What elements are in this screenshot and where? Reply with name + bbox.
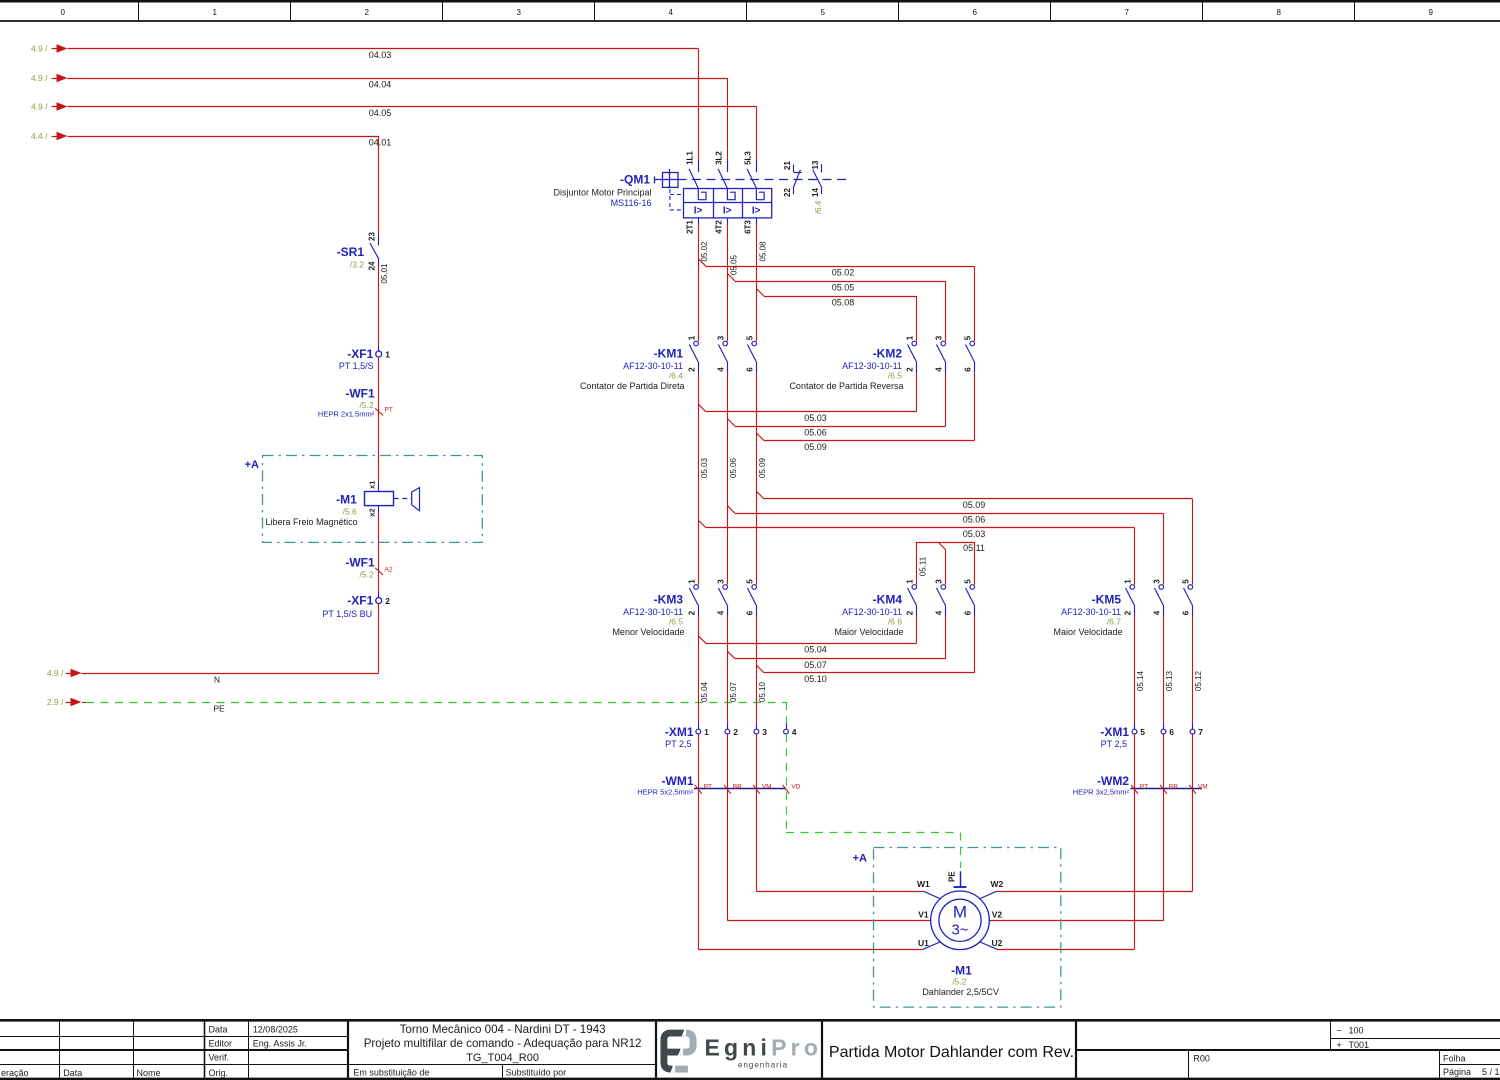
svg-text:05.10: 05.10: [804, 674, 827, 684]
svg-text:Editor: Editor: [209, 1039, 233, 1049]
svg-text:+A: +A: [245, 459, 259, 471]
svg-text:-XM1: -XM1: [665, 725, 694, 739]
svg-text:T001: T001: [1349, 1040, 1370, 1050]
svg-text:Nome: Nome: [137, 1068, 161, 1078]
svg-text:23: 23: [367, 232, 376, 241]
svg-text:12/08/2025: 12/08/2025: [253, 1025, 298, 1035]
svg-text:HEPR 5x2,5mm²: HEPR 5x2,5mm²: [637, 788, 694, 797]
svg-text:4.4 /: 4.4 /: [31, 131, 48, 141]
svg-text:AF12-30-10-11: AF12-30-10-11: [1061, 607, 1121, 617]
svg-text:05.07: 05.07: [804, 660, 827, 670]
svg-text:6: 6: [1169, 727, 1174, 737]
svg-text:Data: Data: [209, 1025, 228, 1035]
svg-text:4: 4: [668, 8, 673, 17]
svg-text:04.01: 04.01: [369, 138, 392, 148]
svg-text:W1: W1: [917, 879, 930, 889]
svg-text:-SR1: -SR1: [337, 245, 365, 259]
svg-text:N: N: [214, 675, 220, 685]
svg-text:24: 24: [367, 261, 376, 270]
svg-text:−: −: [1337, 1025, 1342, 1035]
svg-text:6T3: 6T3: [743, 220, 752, 234]
svg-text:2: 2: [385, 596, 390, 606]
svg-text:I>: I>: [723, 206, 732, 217]
svg-text:1: 1: [906, 579, 915, 584]
svg-text:05.03: 05.03: [804, 413, 827, 423]
svg-text:-WM1: -WM1: [662, 774, 694, 788]
svg-text:Folha: Folha: [1443, 1053, 1466, 1063]
svg-text:/5.2: /5.2: [360, 400, 374, 410]
svg-text:2: 2: [687, 610, 696, 615]
svg-text:05.11: 05.11: [919, 556, 928, 576]
svg-text:05.09: 05.09: [804, 442, 827, 452]
svg-text:05.03: 05.03: [963, 529, 986, 539]
svg-text:AF12-30-10-11: AF12-30-10-11: [842, 607, 902, 617]
svg-text:-XF1: -XF1: [347, 594, 373, 608]
svg-text:PT: PT: [385, 407, 393, 414]
svg-text:x1: x1: [368, 481, 377, 489]
svg-text:2: 2: [1124, 610, 1133, 615]
svg-text:5: 5: [964, 335, 973, 340]
svg-text:+A: +A: [853, 853, 867, 865]
svg-text:Maior Velocidade: Maior Velocidade: [834, 627, 903, 637]
svg-text:3~: 3~: [951, 922, 968, 939]
svg-text:I>: I>: [752, 206, 761, 217]
svg-text:Página: Página: [1443, 1067, 1471, 1077]
svg-text:2: 2: [733, 727, 738, 737]
svg-text:4.9 /: 4.9 /: [31, 44, 48, 54]
svg-text:05.02: 05.02: [700, 241, 709, 262]
svg-text:14: 14: [811, 188, 820, 197]
svg-text:13: 13: [811, 160, 820, 169]
svg-text:5 / 15: 5 / 15: [1482, 1067, 1500, 1077]
svg-text:-WF1: -WF1: [345, 387, 375, 401]
svg-text:/5.2: /5.2: [952, 977, 966, 987]
svg-text:1: 1: [385, 350, 390, 360]
svg-text:-WF1: -WF1: [345, 556, 375, 570]
svg-text:Substituído por: Substituído por: [506, 1067, 567, 1077]
svg-text:A2: A2: [385, 567, 393, 574]
svg-text:05.08: 05.08: [758, 241, 767, 262]
svg-text:05.10: 05.10: [758, 681, 767, 702]
svg-text:05.06: 05.06: [963, 515, 986, 525]
svg-text:eração: eração: [1, 1068, 29, 1078]
svg-text:05.04: 05.04: [700, 681, 709, 702]
svg-text:05.01: 05.01: [380, 263, 389, 284]
svg-text:PT 2,5: PT 2,5: [1101, 739, 1127, 749]
svg-text:Torno Mecânico 004 - Nardini D: Torno Mecânico 004 - Nardini DT - 1943: [400, 1023, 606, 1036]
svg-text:PE: PE: [947, 871, 956, 882]
svg-text:3L2: 3L2: [714, 151, 723, 165]
svg-text:1: 1: [687, 335, 696, 340]
svg-text:V2: V2: [992, 910, 1003, 920]
svg-text:05.08: 05.08: [832, 297, 855, 307]
svg-text:Orig.: Orig.: [209, 1068, 229, 1078]
svg-text:-WM2: -WM2: [1097, 774, 1129, 788]
svg-text:5: 5: [745, 579, 754, 584]
svg-text:Verif.: Verif.: [209, 1053, 230, 1063]
svg-text:4.9 /: 4.9 /: [47, 668, 64, 678]
svg-text:TG_T004_R00: TG_T004_R00: [466, 1052, 539, 1064]
svg-text:4.9 /: 4.9 /: [31, 102, 48, 112]
svg-text:Menor Velocidade: Menor Velocidade: [612, 627, 684, 637]
svg-text:05.02: 05.02: [832, 268, 855, 278]
svg-text:1: 1: [687, 579, 696, 584]
svg-text:+: +: [1337, 1040, 1342, 1050]
svg-text:6: 6: [745, 367, 754, 372]
svg-text:2: 2: [906, 367, 915, 372]
svg-text:5: 5: [964, 579, 973, 584]
svg-text:-M1: -M1: [336, 492, 357, 506]
svg-text:engenharia: engenharia: [738, 1061, 788, 1070]
svg-text:4: 4: [935, 610, 944, 615]
svg-text:04.05: 04.05: [369, 108, 392, 118]
svg-text:Contator de Partida Direta: Contator de Partida Direta: [580, 381, 685, 391]
svg-text:4: 4: [792, 727, 797, 737]
svg-text:/6.4: /6.4: [814, 200, 823, 214]
svg-text:05.06: 05.06: [804, 427, 827, 437]
svg-text:5: 5: [1182, 579, 1191, 584]
svg-text:Projeto multifilar de comando: Projeto multifilar de comando - Adequaçã…: [364, 1037, 642, 1050]
svg-text:05.05: 05.05: [729, 254, 738, 275]
svg-text:3: 3: [762, 727, 767, 737]
svg-text:3: 3: [716, 335, 725, 340]
svg-text:05.09: 05.09: [758, 457, 767, 478]
svg-text:4: 4: [935, 367, 944, 372]
svg-text:2: 2: [906, 610, 915, 615]
svg-text:AF12-30-10-11: AF12-30-10-11: [623, 361, 683, 371]
svg-text:21: 21: [783, 161, 792, 170]
svg-text:05.11: 05.11: [963, 543, 985, 553]
svg-text:VD: VD: [791, 784, 800, 791]
svg-text:05.03: 05.03: [700, 457, 709, 478]
svg-text:1: 1: [704, 727, 709, 737]
svg-text:BR: BR: [733, 784, 742, 791]
svg-text:/6.6: /6.6: [888, 616, 902, 626]
svg-text:AF12-30-10-11: AF12-30-10-11: [842, 361, 902, 371]
svg-text:3: 3: [935, 579, 944, 584]
svg-text:/5.6: /5.6: [343, 507, 357, 517]
svg-text:05.06: 05.06: [729, 457, 738, 478]
svg-text:6: 6: [964, 610, 973, 615]
svg-text:-XF1: -XF1: [347, 347, 373, 361]
svg-text:-KM2: -KM2: [873, 347, 903, 361]
svg-text:5: 5: [820, 8, 825, 17]
svg-text:6: 6: [1182, 610, 1191, 615]
svg-text:3: 3: [716, 579, 725, 584]
svg-text:Contator de Partida Reversa: Contator de Partida Reversa: [789, 381, 903, 391]
svg-text:PT: PT: [1140, 784, 1148, 791]
svg-text:x2: x2: [368, 508, 377, 516]
svg-text:VM: VM: [762, 784, 772, 791]
svg-text:05.07: 05.07: [729, 681, 738, 702]
svg-text:1: 1: [1124, 579, 1133, 584]
svg-text:6: 6: [745, 610, 754, 615]
svg-text:-M1: -M1: [951, 963, 972, 977]
svg-text:22: 22: [783, 188, 792, 197]
svg-text:-KM4: -KM4: [873, 592, 903, 606]
svg-text:3: 3: [516, 8, 521, 17]
svg-text:7: 7: [1198, 727, 1203, 737]
svg-text:HEPR 3x2,5mm²: HEPR 3x2,5mm²: [1073, 788, 1130, 797]
svg-text:U2: U2: [991, 938, 1002, 948]
svg-text:04.04: 04.04: [369, 80, 392, 90]
svg-text:PT 1,5/S BU: PT 1,5/S BU: [322, 609, 372, 619]
svg-text:3: 3: [935, 335, 944, 340]
svg-text:/3.2: /3.2: [350, 259, 364, 269]
svg-text:8: 8: [1276, 8, 1281, 17]
svg-text:5L3: 5L3: [743, 151, 752, 165]
svg-text:M: M: [953, 903, 967, 922]
svg-text:W2: W2: [991, 879, 1004, 889]
svg-text:2T1: 2T1: [685, 220, 694, 234]
svg-text:7: 7: [1124, 8, 1129, 17]
svg-text:05.14: 05.14: [1136, 670, 1145, 691]
svg-text:/6.5: /6.5: [888, 371, 902, 381]
svg-text:6: 6: [972, 8, 977, 17]
svg-text:Dahlander 2,5/5CV: Dahlander 2,5/5CV: [922, 987, 999, 997]
svg-text:Libera Freio Magnético: Libera Freio Magnético: [266, 517, 358, 527]
svg-text:/6.5: /6.5: [669, 616, 683, 626]
svg-text:-KM5: -KM5: [1092, 592, 1122, 606]
svg-text:U1: U1: [918, 938, 929, 948]
svg-text:04.03: 04.03: [369, 50, 392, 60]
svg-text:-QM1: -QM1: [620, 173, 650, 187]
svg-text:5: 5: [745, 335, 754, 340]
svg-text:100: 100: [1349, 1025, 1364, 1035]
svg-text:HEPR 2x1,5mm²: HEPR 2x1,5mm²: [318, 410, 375, 419]
svg-text:I>: I>: [694, 206, 703, 217]
svg-text:EgniPro: EgniPro: [705, 1035, 823, 1061]
svg-text:2: 2: [364, 8, 369, 17]
svg-text:6: 6: [964, 367, 973, 372]
svg-text:1L1: 1L1: [685, 151, 694, 165]
svg-text:Em substituição de: Em substituição de: [353, 1067, 429, 1077]
svg-text:Maior Velocidade: Maior Velocidade: [1053, 627, 1122, 637]
svg-text:9: 9: [1428, 8, 1433, 17]
svg-text:-XM1: -XM1: [1100, 725, 1129, 739]
svg-text:05.05: 05.05: [832, 282, 855, 292]
svg-text:PT: PT: [704, 784, 712, 791]
svg-text:2.9 /: 2.9 /: [47, 697, 64, 707]
svg-text:PE: PE: [213, 704, 225, 714]
svg-text:05.09: 05.09: [963, 500, 986, 510]
svg-text:Eng. Assis Jr.: Eng. Assis Jr.: [253, 1039, 307, 1049]
svg-text:Partida Motor Dahlander com Re: Partida Motor Dahlander com Rev.: [829, 1044, 1074, 1061]
svg-text:0: 0: [60, 8, 65, 17]
svg-text:4.9 /: 4.9 /: [31, 73, 48, 83]
svg-text:/5.2: /5.2: [360, 570, 374, 580]
svg-text:3: 3: [1153, 579, 1162, 584]
svg-text:5: 5: [1140, 727, 1145, 737]
svg-text:/6.7: /6.7: [1107, 616, 1121, 626]
svg-text:4T2: 4T2: [714, 220, 723, 234]
svg-text:2: 2: [687, 367, 696, 372]
svg-text:R00: R00: [1193, 1053, 1210, 1063]
svg-text:PT 2,5: PT 2,5: [665, 739, 691, 749]
svg-text:/6.4: /6.4: [669, 371, 683, 381]
svg-text:05.13: 05.13: [1165, 670, 1174, 691]
svg-text:05.04: 05.04: [804, 645, 827, 655]
svg-text:BR: BR: [1169, 784, 1178, 791]
svg-text:PT 1,5/S: PT 1,5/S: [339, 361, 374, 371]
svg-text:MS116-16: MS116-16: [611, 198, 652, 208]
svg-text:4: 4: [716, 367, 725, 372]
svg-text:V1: V1: [918, 910, 929, 920]
svg-text:05.12: 05.12: [1194, 670, 1203, 691]
svg-text:Disjuntor Motor Principal: Disjuntor Motor Principal: [553, 187, 651, 197]
svg-text:AF12-30-10-11: AF12-30-10-11: [623, 607, 683, 617]
svg-text:4: 4: [716, 610, 725, 615]
svg-text:4: 4: [1153, 610, 1162, 615]
svg-text:-KM3: -KM3: [654, 592, 684, 606]
svg-text:-KM1: -KM1: [654, 347, 684, 361]
svg-text:VM: VM: [1198, 784, 1208, 791]
svg-text:1: 1: [212, 8, 217, 17]
svg-text:Data: Data: [63, 1068, 82, 1078]
svg-text:1: 1: [906, 335, 915, 340]
